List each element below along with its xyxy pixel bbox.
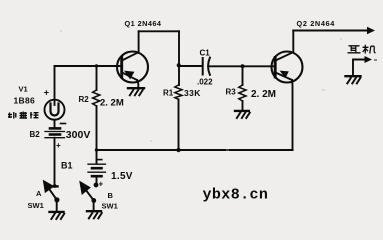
- node at R1 bottom rail: [176, 148, 180, 152]
- svg-text:+: +: [44, 87, 49, 97]
- svg-text:300V: 300V: [66, 129, 91, 141]
- svg-text:B: B: [108, 191, 114, 200]
- minus sign B2: [61, 123, 66, 125]
- svg-text:1B86: 1B86: [14, 95, 36, 105]
- wire B1 to switch B: [96, 176, 98, 183]
- svg-text:Q2 2N464: Q2 2N464: [297, 19, 336, 28]
- svg-text:R1: R1: [163, 89, 174, 98]
- ground (Q1 emitter): [128, 88, 144, 95]
- transistor Q2 2N464: [272, 52, 303, 83]
- wire R1 node to C1: [179, 65, 202, 67]
- paper speckles: [60, 30, 377, 151]
- wire R1 drop from top rail: [178, 31, 180, 85]
- wire rail to B1: [96, 150, 98, 164]
- label counter tube (Chinese): [8, 112, 39, 119]
- transistor Q1 2N464: [117, 52, 148, 88]
- svg-text:ybx8.cn: ybx8.cn: [203, 187, 269, 204]
- svg-text:2. 2M: 2. 2M: [251, 89, 276, 100]
- ground (earphone): [346, 76, 361, 83]
- resistor R1 33K: [175, 85, 182, 150]
- resistor R3 2.2M: [239, 66, 246, 110]
- wire top-right rail to earphone: [293, 27, 375, 34]
- svg-text:+: +: [99, 180, 104, 189]
- wire V1 to B2: [54, 120, 56, 128]
- svg-text:B1: B1: [61, 161, 73, 171]
- wire earphone return: [353, 56, 372, 76]
- switch A SW1 contact tick: [52, 185, 58, 187]
- node at R1 / C1 junction: [177, 63, 181, 67]
- ground (R3): [235, 111, 250, 118]
- switch B SW1 blade: [81, 183, 97, 203]
- wire Q1 collector riser: [138, 31, 140, 53]
- ground (switch A): [50, 212, 65, 219]
- node at rail / B1: [95, 148, 98, 151]
- node at R3 / Q2 base: [241, 64, 245, 68]
- svg-text:SW1: SW1: [28, 201, 44, 210]
- svg-text:Q1 2N464: Q1 2N464: [125, 19, 162, 28]
- svg-text:33K: 33K: [184, 88, 201, 98]
- ground (switch B): [87, 211, 102, 218]
- wire top-left rail from Q1 collector: [139, 30, 179, 32]
- capacitor C1 .022: [203, 58, 210, 75]
- battery B2 300V: [45, 128, 65, 137]
- svg-text:+: +: [56, 141, 61, 150]
- node at R2 top: [95, 64, 98, 67]
- switch A SW1 blade: [44, 182, 60, 203]
- wire Q2 emitter to rail: [291, 80, 294, 150]
- wire Q2 collector riser: [292, 31, 294, 53]
- svg-text:SW1: SW1: [102, 202, 118, 211]
- svg-text:R2: R2: [79, 95, 90, 104]
- svg-text:R3: R3: [226, 88, 237, 97]
- wire bottom rail: [97, 149, 293, 151]
- svg-text:B2: B2: [30, 130, 41, 139]
- wire switch A to ground: [56, 200, 58, 211]
- tube V1 (counter tube): [45, 100, 65, 120]
- svg-text:.022: .022: [197, 78, 213, 87]
- svg-text:1.5V: 1.5V: [111, 171, 133, 182]
- resistor R2 2.2M: [93, 66, 100, 150]
- svg-text:2. 2M: 2. 2M: [100, 98, 124, 109]
- battery B1 1.5V: [88, 164, 106, 176]
- svg-text:A: A: [36, 189, 42, 198]
- wire V1 riser: [54, 66, 56, 100]
- wire C1 to Q2 base: [209, 65, 275, 67]
- minus sign B1: [97, 159, 102, 161]
- svg-text:C1: C1: [200, 49, 211, 58]
- svg-text:V1: V1: [19, 85, 28, 94]
- wire B2 to switch A: [54, 138, 56, 185]
- wire switch B to ground: [93, 200, 95, 210]
- switch B SW1 contact blob: [94, 183, 99, 188]
- label earphone (Chinese): [348, 45, 376, 54]
- wire input node (V1 / R2 / Q1 base): [55, 65, 122, 67]
